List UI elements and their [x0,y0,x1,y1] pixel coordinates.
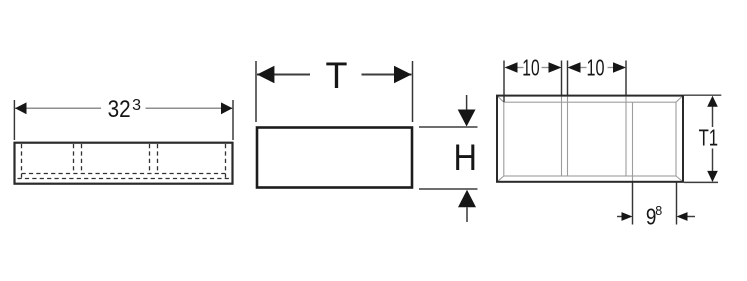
svg-text:3: 3 [132,97,141,114]
svg-text:T: T [326,55,348,96]
svg-text:32: 32 [108,96,131,123]
svg-text:H: H [454,137,478,178]
svg-text:T1: T1 [699,125,719,151]
svg-text:10: 10 [522,55,539,81]
svg-text:10: 10 [587,55,605,81]
svg-text:8: 8 [655,204,662,218]
